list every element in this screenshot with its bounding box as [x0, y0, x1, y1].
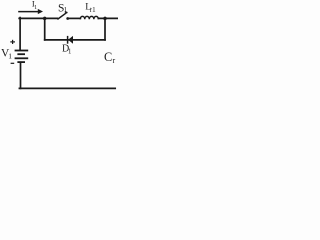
current arrow I1 shaft [18, 11, 38, 13]
switch S1 blade [57, 12, 67, 20]
node A junction dot [43, 17, 47, 21]
wire left vertical [19, 18, 21, 51]
svg-text:1: 1 [68, 49, 71, 56]
svg-text:1: 1 [34, 5, 37, 11]
inductor Lr1 coil [80, 16, 98, 19]
current arrow I1 head [38, 9, 43, 14]
wire top rail right segment [98, 17, 118, 19]
svg-text:1: 1 [64, 6, 68, 14]
battery V1 plates [15, 51, 29, 63]
svg-text:r1: r1 [90, 6, 96, 14]
diode D1 triangle [68, 36, 73, 44]
switch S1 right terminal dot [66, 17, 69, 20]
wire top rail middle segment [68, 17, 81, 19]
wire top rail left segment [19, 17, 57, 19]
wire battery bottom lead [20, 62, 22, 88]
battery minus sign [11, 62, 15, 64]
node B junction dot [103, 17, 107, 21]
wire left branch vertical [44, 18, 46, 40]
wire diode rail [45, 39, 105, 41]
diode D1 cathode bar [67, 36, 69, 44]
svg-text:1: 1 [8, 51, 12, 60]
battery plus sign [10, 40, 15, 44]
svg-text:C: C [104, 50, 112, 64]
wire right branch vertical [104, 18, 106, 40]
wire bottom rail [19, 87, 115, 89]
svg-text:r: r [113, 56, 116, 65]
